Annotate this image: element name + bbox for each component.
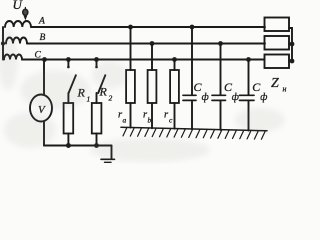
load Zn box2	[265, 36, 290, 50]
svg-text:A: A	[38, 17, 45, 27]
svg-text:ф: ф	[232, 92, 239, 103]
wire phase B	[27, 43, 265, 45]
capacitor C3	[248, 60, 250, 96]
svg-text:B: B	[40, 33, 46, 43]
load Zn box3	[265, 55, 290, 69]
wire voltmeter bottom lead	[43, 122, 45, 146]
svg-text:ф: ф	[260, 92, 267, 103]
resistor rb	[151, 44, 153, 71]
node D1 (ra tap on A)	[128, 25, 133, 30]
svg-text:a: a	[123, 116, 127, 125]
wire load right bus	[289, 28, 292, 61]
switch SW2	[96, 60, 98, 67]
svg-text:ф: ф	[202, 92, 209, 103]
resistor ra	[130, 27, 132, 70]
svg-text:b: b	[148, 116, 152, 125]
node E1 (C1 tap on A)	[190, 25, 195, 30]
node D2 (rb tap on B)	[150, 41, 155, 46]
ground	[111, 146, 113, 159]
inductor LA (phase A winding)	[5, 21, 31, 27]
wire voltmeter top lead	[43, 60, 45, 95]
node J2	[94, 143, 99, 148]
flux arrow	[24, 8, 26, 18]
inductor LC (phase C winding)	[4, 55, 22, 60]
node E3 (C3 tap on C)	[246, 57, 251, 62]
node S1 (R1 tap on C)	[66, 57, 71, 62]
svg-text:Z: Z	[271, 76, 279, 91]
capacitor C1	[191, 27, 193, 95]
svg-text:U: U	[13, 0, 24, 12]
node F2	[290, 59, 295, 64]
resistor R2	[96, 93, 98, 103]
node J1	[66, 143, 71, 148]
resistor R1	[67, 93, 69, 103]
node N (source neutral)	[1, 41, 5, 45]
wire phase A	[31, 26, 265, 28]
voltmeter PV	[30, 95, 52, 122]
left bus wire	[2, 27, 4, 60]
switch SW1	[67, 60, 69, 67]
resistor rc	[174, 60, 176, 71]
node E2 (C2 tap on B)	[218, 41, 223, 46]
wire phase C	[22, 59, 265, 61]
node S2 (R2 tap on C)	[94, 57, 99, 62]
wire bottom neutral	[44, 145, 112, 147]
earth hatch bar	[121, 127, 267, 139]
node F1	[290, 42, 295, 47]
load Zn box1	[265, 18, 290, 32]
inductor LB (phase B winding)	[6, 38, 27, 44]
svg-text:н: н	[283, 85, 287, 94]
node D3 (rc tap on C)	[172, 57, 177, 62]
svg-text:2: 2	[109, 94, 113, 103]
node A1 (voltmeter tap on C)	[42, 57, 47, 62]
svg-text:C: C	[35, 51, 42, 61]
capacitor C2	[220, 44, 222, 96]
